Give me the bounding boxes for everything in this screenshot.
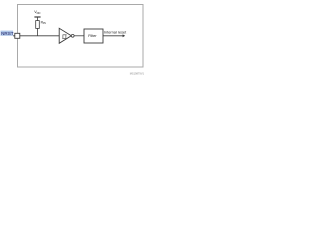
resistor RPU: [36, 21, 40, 29]
svg-text:Filter: Filter: [88, 34, 97, 38]
svg-text:VDD: VDD: [34, 10, 40, 15]
wire filter to internal reset arrow: [103, 35, 123, 37]
hysteresis symbol: [62, 35, 66, 39]
svg-text:MS19879V1: MS19879V1: [130, 72, 145, 76]
inverter bubble: [71, 34, 74, 37]
node NRST label: [1, 31, 14, 36]
chip outline box: [18, 5, 144, 68]
svg-text:RPU: RPU: [41, 21, 47, 26]
wire junction branch up to resistor: [37, 28, 39, 35]
wire NRST pad to trigger input: [13, 35, 59, 37]
NRST pad: [15, 33, 20, 38]
wire trigger to filter: [74, 35, 84, 37]
svg-text:NRST: NRST: [1, 31, 14, 36]
VDD rail symbol: [34, 16, 40, 18]
schmitt trigger U1 triangle: [59, 28, 71, 43]
svg-text:Internal reset: Internal reset: [104, 30, 127, 34]
filter block: [84, 29, 103, 43]
